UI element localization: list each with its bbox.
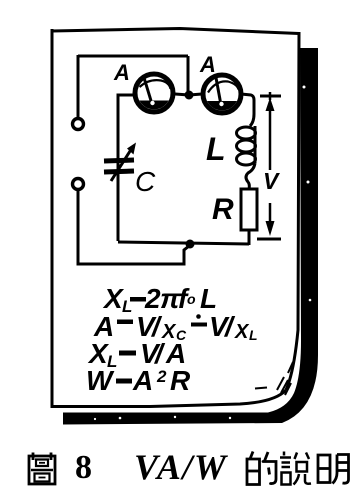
terminal (lower open circle) <box>73 179 84 190</box>
inductor L (coil) <box>237 126 256 165</box>
formula line 1: XL = 2 pi f0 L <box>102 283 217 316</box>
svg-text:R: R <box>212 193 234 226</box>
page edge black band (right+bottom) <box>63 48 318 425</box>
wire: resistor to bottom <box>248 230 251 245</box>
svg-text:A: A <box>132 365 153 396</box>
svg-text:L: L <box>249 327 258 343</box>
formula line 2: A = V/Xc approx V/XL <box>93 311 258 343</box>
svg-text:L: L <box>206 131 226 167</box>
wire: capacitor branch (corner, vertical through C) <box>118 95 133 241</box>
svg-text:VA/W: VA/W <box>134 447 229 487</box>
wire: meter1 right lead <box>175 94 189 95</box>
voltage dimension V: top bar <box>260 95 281 98</box>
node junction between meters <box>185 91 194 100</box>
wire: circuit top <box>78 55 188 58</box>
page frame (thin border) <box>52 29 299 407</box>
wire: left branch lower drop <box>78 190 189 264</box>
svg-text:2: 2 <box>144 283 161 314</box>
ammeter A2 (right) <box>203 75 241 113</box>
svg-text:R: R <box>170 365 191 396</box>
page curl hatch marks <box>255 362 293 395</box>
V up arrow <box>266 92 275 170</box>
caption: character DE hand-drawn <box>247 452 276 485</box>
svg-text:X: X <box>234 321 250 343</box>
svg-text:L: L <box>200 283 217 314</box>
formula line 4: W = A^2 R <box>86 365 191 396</box>
svg-text:A: A <box>199 52 216 77</box>
V down arrow <box>266 203 275 236</box>
svg-text:2: 2 <box>156 367 167 386</box>
voltage dimension V: bottom bar <box>257 238 281 241</box>
svg-text:8: 8 <box>75 449 92 486</box>
ammeter A1 (left) <box>135 74 173 112</box>
resistor R <box>241 189 257 230</box>
caption: character TU (figure) hand-drawn <box>29 453 55 485</box>
svg-text:o: o <box>187 291 196 307</box>
caption: character SHUO hand-drawn <box>280 452 311 485</box>
wire: bottom run <box>118 242 249 244</box>
band texture speckles <box>94 86 311 421</box>
caption: character MING hand-drawn <box>318 455 349 484</box>
capacitor C (variable) plates <box>104 160 134 172</box>
node bottom junction <box>186 240 195 249</box>
formula line 3: XL = V/A <box>87 338 186 371</box>
wire: coil to resistor <box>246 163 255 189</box>
svg-text:C: C <box>135 166 156 197</box>
svg-text:A: A <box>113 60 130 85</box>
svg-text:V: V <box>263 168 280 194</box>
svg-text:W: W <box>86 365 115 396</box>
wire: meter2 left lead <box>189 94 202 95</box>
wire: left branch upper drop <box>77 55 80 118</box>
capacitor arrow <box>111 143 136 182</box>
wire: top drop to meter junction <box>187 56 190 94</box>
terminal (upper open circle) <box>73 119 84 130</box>
wire: meter2 to coil (S-curve) <box>241 94 254 126</box>
